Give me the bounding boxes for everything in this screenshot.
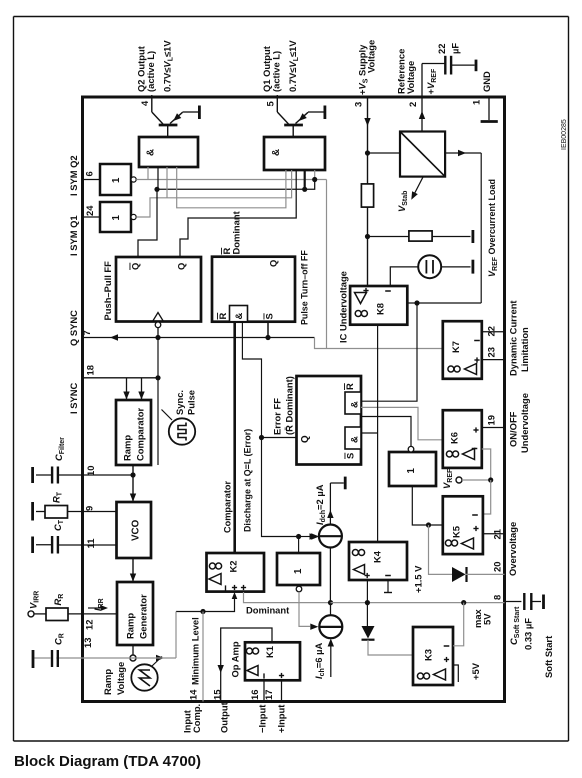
svg-text:1: 1 bbox=[111, 177, 122, 183]
pin 4 stub bbox=[151, 95, 153, 97]
wire pin 23 bbox=[482, 359, 505, 361]
AND gate Q2 bbox=[139, 137, 198, 167]
wire errorFF S-and to K4 bbox=[361, 432, 378, 434]
junction VS-regulator bbox=[365, 150, 370, 155]
svg-text:14: 14 bbox=[188, 689, 199, 700]
wire pin 6 bbox=[83, 179, 101, 181]
label CR bbox=[53, 633, 66, 645]
pin 6 number bbox=[84, 171, 95, 176]
label max 5V bbox=[472, 608, 493, 628]
wire pin 10 bbox=[59, 474, 133, 476]
regulator block bbox=[400, 132, 445, 177]
wire ramp generator output bbox=[132, 645, 134, 655]
svg-text:K7: K7 bbox=[450, 341, 461, 353]
label GND bbox=[481, 71, 492, 92]
svg-text:3: 3 bbox=[353, 102, 364, 107]
wire VREF to K5 minus bbox=[483, 480, 491, 514]
label Dominant bbox=[246, 605, 289, 616]
svg-text:Q SYNC: Q SYNC bbox=[68, 310, 79, 346]
ground bar 22uF bbox=[475, 60, 478, 72]
label I SYM Q2 bbox=[68, 155, 79, 196]
clock bubble Push-Pull FF bbox=[155, 322, 161, 328]
ramp voltage symbol bbox=[131, 657, 162, 691]
wire K2 plus2 input bbox=[244, 592, 331, 603]
svg-text:Limitation: Limitation bbox=[519, 327, 530, 372]
K8 input signs bbox=[363, 288, 390, 293]
Vstab arrow bbox=[411, 177, 423, 200]
pin 15 number bbox=[212, 690, 223, 700]
svg-text:Discharge at Q=L (Error): Discharge at Q=L (Error) bbox=[243, 429, 253, 532]
AND box S error FF bbox=[345, 427, 361, 449]
svg-text:15: 15 bbox=[212, 690, 223, 700]
wire pin 21 bbox=[483, 533, 505, 535]
label VREF Overcurrent Load bbox=[487, 179, 499, 277]
svg-text:17: 17 bbox=[263, 690, 274, 700]
svg-text:K8: K8 bbox=[375, 303, 386, 315]
wire to mid inverter bbox=[298, 537, 300, 554]
svg-text:20: 20 bbox=[492, 562, 503, 572]
svg-text:&: & bbox=[350, 401, 361, 408]
comparator K6 bbox=[443, 410, 482, 468]
svg-text:1: 1 bbox=[111, 215, 122, 221]
svg-text:5V: 5V bbox=[482, 613, 493, 625]
svg-text:8: 8 bbox=[492, 595, 503, 600]
label Soft Start bbox=[543, 636, 554, 678]
inverter box 2 bbox=[389, 452, 436, 486]
wire 2uA to rail bbox=[329, 548, 331, 603]
comparator K3 bbox=[413, 627, 453, 685]
label Overvoltage bbox=[507, 522, 518, 576]
label CT bbox=[52, 519, 65, 531]
terminal bar 2uA bbox=[330, 477, 345, 490]
label +1.5V bbox=[413, 565, 424, 593]
wire D1 to K3 bbox=[368, 640, 413, 655]
svg-text:Pulse Turn–off FF: Pulse Turn–off FF bbox=[300, 250, 310, 325]
svg-text:Voltage: Voltage bbox=[405, 61, 416, 94]
label Q2 Output bbox=[136, 40, 175, 92]
junction K8 line bbox=[414, 300, 419, 305]
pin 24 number bbox=[84, 205, 95, 216]
svg-text:Overvoltage: Overvoltage bbox=[507, 522, 518, 576]
resistor R1 VS bbox=[361, 184, 373, 207]
svg-text:&: & bbox=[271, 149, 282, 156]
comparator K4 bbox=[349, 542, 407, 580]
current source Idch 2uA bbox=[311, 483, 342, 548]
junction S-pin7 bbox=[265, 335, 270, 340]
resistor RR bbox=[46, 608, 68, 621]
svg-text:Op Amp: Op Amp bbox=[230, 641, 241, 677]
pin 5 number bbox=[265, 101, 276, 106]
pin 1 number bbox=[471, 100, 482, 105]
label IRR bbox=[92, 598, 105, 611]
label CSoftStart bbox=[508, 606, 521, 645]
wire ramp comp inputs bbox=[123, 378, 144, 400]
wire pin 17 bbox=[281, 680, 283, 701]
K6 input signs bbox=[472, 427, 479, 448]
node ramp voltage bbox=[130, 655, 136, 661]
wire errorFF R to K8 line bbox=[361, 303, 417, 401]
pin 19 number bbox=[486, 415, 497, 425]
wire ramp comp to VCO bbox=[130, 465, 136, 502]
ground bar CR bbox=[32, 650, 35, 668]
label +VS Supply Voltage bbox=[357, 40, 377, 95]
IC outline main box bbox=[83, 97, 505, 702]
junction discharge-inverter bbox=[296, 534, 301, 539]
label CFilter bbox=[53, 437, 66, 461]
label ON/OFF Undervoltage bbox=[508, 393, 531, 453]
pin 5 stub bbox=[276, 95, 278, 97]
wire current source to K8 bbox=[390, 267, 418, 286]
pin 2 number bbox=[407, 102, 418, 107]
label Dynamic Current Limitation bbox=[508, 300, 531, 376]
pin 20 number bbox=[492, 562, 503, 572]
label I SYNC bbox=[68, 383, 79, 414]
svg-text:0.33 µF: 0.33 µF bbox=[523, 618, 534, 650]
svg-text:Dynamic Current: Dynamic Current bbox=[508, 300, 519, 376]
svg-text:K1: K1 bbox=[264, 646, 275, 658]
pin 23 number bbox=[486, 347, 497, 357]
K4 input signs bbox=[365, 573, 391, 578]
wire comparator line bbox=[233, 322, 236, 553]
wire pin 9 bbox=[36, 511, 117, 513]
label +5V bbox=[470, 662, 481, 680]
label Error FF bbox=[272, 376, 295, 435]
label Ich=6uA bbox=[313, 643, 326, 679]
block Ramp Comparator bbox=[116, 400, 151, 465]
svg-text:Voltage: Voltage bbox=[366, 40, 377, 73]
svg-text:13: 13 bbox=[82, 638, 93, 648]
svg-text:µF: µF bbox=[450, 43, 461, 54]
label Q SYNC bbox=[68, 310, 79, 346]
svg-text:IC Undervoltage: IC Undervoltage bbox=[338, 271, 349, 343]
label Idch=2uA bbox=[314, 484, 327, 525]
svg-text:Ramp: Ramp bbox=[125, 613, 136, 639]
svg-text:1: 1 bbox=[471, 100, 482, 105]
label Input Comp. bbox=[182, 704, 203, 733]
label Sync. Pulse bbox=[174, 390, 197, 415]
wire VS supply rail bbox=[364, 97, 370, 286]
clock input triangle Push-Pull FF bbox=[153, 313, 164, 322]
current source Ich 6uA bbox=[319, 603, 342, 677]
label VStab bbox=[396, 191, 409, 212]
pin 9 number bbox=[84, 506, 95, 511]
terminal VIRR bbox=[28, 611, 34, 617]
wire bus L1 (inverter1 to right) bbox=[136, 167, 326, 180]
junction VS-R2 bbox=[365, 234, 370, 239]
AND gate Q1 bbox=[264, 137, 325, 170]
pin 4 number bbox=[139, 100, 150, 106]
svg-text:+1.5 V: +1.5 V bbox=[413, 565, 424, 593]
wire pin1 bbox=[488, 97, 490, 120]
ground bar CT bbox=[31, 537, 34, 554]
K5 input signs bbox=[472, 515, 478, 531]
label R Dominant (pulse FF) bbox=[221, 211, 242, 254]
capacitor CFilter bbox=[36, 467, 59, 484]
svg-text:1: 1 bbox=[293, 568, 304, 574]
svg-text:22: 22 bbox=[486, 326, 497, 336]
svg-text:R: R bbox=[217, 313, 228, 320]
K1 input signs bbox=[264, 673, 284, 679]
wire pin 13 bbox=[34, 657, 133, 659]
wire VS to R2 bbox=[368, 236, 409, 238]
svg-text:22: 22 bbox=[436, 44, 447, 54]
label R error FF bbox=[344, 383, 355, 390]
inverter 1 bubble bbox=[131, 177, 136, 182]
capacitor soft start bbox=[505, 593, 542, 610]
svg-text:Q: Q bbox=[130, 263, 141, 270]
svg-text:(R̄ Dominant): (R̄ Dominant) bbox=[284, 376, 295, 435]
junction pin10-vco bbox=[130, 472, 135, 477]
svg-text:Generator: Generator bbox=[138, 594, 149, 639]
wire VS to regulator bbox=[368, 152, 401, 154]
wire pin 18 I sync line bbox=[83, 338, 159, 466]
label RT bbox=[51, 491, 64, 503]
svg-text:Push–Pull FF: Push–Pull FF bbox=[102, 261, 113, 321]
inverter box 1 bubble bbox=[296, 586, 302, 592]
svg-text:K5: K5 bbox=[451, 526, 462, 538]
svg-text:−Input: −Input bbox=[257, 705, 268, 733]
wire pin 22 bbox=[482, 331, 505, 333]
wire errorFF gray to K6 bbox=[361, 407, 443, 439]
capacitor CT bbox=[36, 536, 59, 554]
block Ramp Generator bbox=[117, 582, 153, 645]
wire regulator output bbox=[445, 150, 481, 156]
pin 17 number bbox=[263, 690, 274, 700]
label S error FF bbox=[345, 453, 356, 459]
wire K4 minus ref bbox=[384, 580, 392, 593]
svg-text:24: 24 bbox=[84, 205, 95, 216]
inverter box 1 bbox=[277, 553, 320, 585]
svg-text:Block Diagram (TDA 4700): Block Diagram (TDA 4700) bbox=[14, 753, 201, 770]
emitter terminal bar Q2 bbox=[183, 106, 200, 120]
diode D2 overvoltage bbox=[452, 567, 505, 582]
wire bus L4 bbox=[177, 167, 286, 208]
svg-text:Q: Q bbox=[176, 263, 187, 270]
svg-text:16: 16 bbox=[249, 690, 260, 700]
label Output bbox=[219, 702, 230, 733]
junction overvoltage line bbox=[426, 522, 431, 527]
wire K8 to overcurrent line bbox=[407, 302, 481, 304]
svg-text:12: 12 bbox=[84, 620, 95, 630]
svg-text:Sync.: Sync. bbox=[174, 390, 185, 415]
wire VREF overcurrent line bbox=[480, 153, 482, 303]
pin 13 number bbox=[82, 638, 93, 648]
wire pin 12 bbox=[34, 613, 117, 615]
comparator K8 bbox=[350, 286, 407, 325]
pin 8 number bbox=[492, 595, 503, 600]
svg-text:1: 1 bbox=[406, 468, 417, 474]
op-amp K1 bbox=[245, 642, 300, 680]
svg-text:5: 5 bbox=[265, 101, 276, 106]
capacitor CR bbox=[52, 650, 58, 667]
label 0.33uF bbox=[523, 618, 534, 650]
svg-text:Q: Q bbox=[268, 260, 279, 267]
svg-text:I SYNC: I SYNC bbox=[68, 383, 79, 414]
wire sync to K7 bbox=[315, 338, 443, 349]
AND box R error FF bbox=[345, 392, 361, 414]
comparator K2 bbox=[207, 553, 265, 592]
wire pin2 external riser bbox=[422, 63, 445, 65]
wire ramp to K2 bbox=[133, 612, 176, 662]
junction bus L2 bbox=[302, 187, 307, 192]
wire FF Qbar up bbox=[138, 189, 157, 257]
transistor Q2 output stage bbox=[152, 97, 183, 137]
svg-text:S: S bbox=[264, 313, 275, 319]
wire K2 plus1 input bbox=[176, 592, 237, 612]
label Minimum Level bbox=[190, 617, 201, 685]
ground bar CFilter bbox=[31, 467, 34, 483]
label Comparator bbox=[223, 481, 233, 533]
wire pin 7 Q sync line bbox=[83, 322, 315, 341]
wire pin 16 bbox=[263, 680, 265, 701]
wire bus L2 bbox=[158, 167, 315, 189]
terminal bar R2 bbox=[471, 230, 474, 243]
wire VREF node bbox=[462, 479, 491, 481]
K3 input signs bbox=[444, 646, 450, 662]
label I SYM Q1 bbox=[68, 215, 79, 256]
pin 14 number bbox=[188, 689, 199, 700]
pin 21 number bbox=[492, 529, 503, 539]
resistor RT bbox=[45, 506, 68, 519]
wire FF Q to gate Q1 bbox=[180, 170, 296, 257]
svg-text:K4: K4 bbox=[372, 550, 383, 563]
wire discharge line bbox=[242, 322, 317, 540]
svg-text:GND: GND bbox=[481, 71, 492, 92]
junction 2uA rail bbox=[328, 600, 333, 605]
ground bar soft start bbox=[542, 595, 545, 610]
svg-text:I SYM Q1: I SYM Q1 bbox=[68, 215, 79, 256]
wire pin 19 bbox=[482, 427, 505, 429]
current source VREF overcurrent bbox=[418, 255, 441, 278]
svg-text:+Input: +Input bbox=[276, 705, 287, 733]
label Op Amp bbox=[230, 641, 241, 677]
junction Qbar-L2 bbox=[154, 187, 159, 192]
label Q1 Output bbox=[261, 40, 300, 92]
inverter box 2 bubble bbox=[408, 446, 414, 452]
svg-text:23: 23 bbox=[486, 347, 497, 357]
svg-text:Dominant: Dominant bbox=[246, 605, 289, 616]
comparator K5 bbox=[443, 496, 483, 554]
label VIRR bbox=[28, 591, 41, 609]
svg-text:18: 18 bbox=[85, 365, 96, 375]
terminal VREF bbox=[456, 477, 462, 483]
ground bar RT bbox=[31, 502, 34, 521]
svg-text:&: & bbox=[350, 436, 361, 443]
wire VCO to ramp generator bbox=[130, 558, 136, 582]
junction pin18-clockline bbox=[155, 375, 160, 380]
svg-text:Voltage: Voltage bbox=[115, 662, 126, 695]
label -Input bbox=[257, 705, 268, 733]
emitter terminal bar Q1 bbox=[308, 106, 325, 120]
svg-text:21: 21 bbox=[492, 529, 503, 539]
svg-text:Error FF: Error FF bbox=[272, 398, 283, 435]
svg-text:6: 6 bbox=[84, 171, 95, 176]
pin 22 number bbox=[486, 326, 497, 336]
svg-text:K3: K3 bbox=[423, 649, 434, 661]
wire pin 11 bbox=[59, 544, 117, 546]
junction minlevel bbox=[200, 609, 205, 614]
wire K1 output to pin 15 bbox=[218, 628, 273, 702]
svg-text:Ramp: Ramp bbox=[122, 435, 133, 461]
svg-text:(active L): (active L) bbox=[145, 51, 156, 92]
svg-text:&: & bbox=[234, 313, 245, 320]
svg-text:R: R bbox=[344, 383, 355, 390]
svg-text:19: 19 bbox=[486, 415, 497, 425]
inverter 2 bubble bbox=[131, 214, 136, 219]
current arrow IRR bbox=[88, 605, 108, 611]
wire pin 14 minimum level bbox=[202, 612, 204, 702]
svg-text:Ramp: Ramp bbox=[102, 669, 113, 695]
pin 7 number bbox=[81, 330, 92, 335]
label Discharge at Q=L (Error) bbox=[243, 429, 253, 532]
svg-text:4: 4 bbox=[139, 100, 150, 106]
junction VREF bbox=[488, 477, 493, 482]
svg-text:+5V: +5V bbox=[470, 662, 481, 680]
svg-text:Dominant: Dominant bbox=[231, 211, 242, 254]
wire soft start rail bbox=[331, 602, 505, 604]
resistor R2 bbox=[409, 231, 432, 241]
caption Block Diagram (TDA 4700) bbox=[14, 753, 201, 770]
junction clock-pin7 bbox=[155, 335, 160, 340]
svg-text:K2: K2 bbox=[228, 561, 239, 573]
svg-text:Comparator: Comparator bbox=[135, 408, 146, 461]
svg-text:IEB00285: IEB00285 bbox=[561, 119, 568, 150]
label S input pulse FF bbox=[264, 313, 275, 319]
pin 18 number bbox=[85, 365, 96, 375]
wire inverter2 output to K5 bbox=[412, 486, 443, 525]
wire pin 24 bbox=[83, 216, 101, 218]
pin 10 number bbox=[85, 466, 96, 476]
inverter 1 (pin 6) bbox=[100, 164, 131, 195]
ground bar GND pin1 bbox=[481, 120, 498, 123]
flip-flop Push-Pull FF bbox=[116, 257, 201, 322]
capacitor 22uF bbox=[445, 56, 475, 75]
label 22uF bbox=[436, 43, 461, 54]
label +Input bbox=[276, 705, 287, 733]
label Push-Pull FF bbox=[102, 261, 113, 321]
svg-text:7: 7 bbox=[81, 330, 92, 335]
wire errorFF to inverter box 2 bbox=[361, 417, 411, 447]
K2 input signs bbox=[226, 585, 247, 591]
svg-text:I SYM Q2: I SYM Q2 bbox=[68, 155, 79, 196]
block VCO bbox=[117, 502, 152, 558]
junction discharge-errorFF bbox=[259, 435, 264, 440]
label RR bbox=[52, 594, 65, 606]
svg-text:K6: K6 bbox=[449, 432, 460, 444]
svg-text:Soft Start: Soft Start bbox=[543, 636, 554, 678]
wire gateQ1 strobe bbox=[304, 170, 306, 189]
label +VREF bbox=[425, 68, 438, 94]
pin 11 number bbox=[85, 539, 96, 549]
wire K3 plus 5V bbox=[453, 665, 458, 682]
svg-text:Q: Q bbox=[300, 435, 311, 443]
K7 input signs bbox=[474, 341, 480, 363]
wire K4 plus input bbox=[366, 580, 368, 603]
wire K8 output bbox=[377, 325, 379, 542]
svg-text:ON/OFF: ON/OFF bbox=[508, 411, 519, 447]
wire overvoltage line to diode bbox=[429, 525, 453, 574]
svg-text:Minimum Level: Minimum Level bbox=[190, 617, 201, 685]
comparator K7 bbox=[443, 321, 482, 379]
wire R2 to bar bbox=[432, 236, 470, 238]
pin 3 number bbox=[353, 102, 364, 107]
wire inverter1 to 6uA source bbox=[299, 592, 318, 630]
flip-flop Error FF bbox=[297, 376, 362, 465]
wire bus L3 (inverter2) bbox=[136, 167, 291, 217]
AND box inside Pulse FF bbox=[230, 306, 248, 322]
flip-flop Pulse Turn-off FF bbox=[212, 257, 295, 322]
svg-text:2: 2 bbox=[407, 102, 418, 107]
